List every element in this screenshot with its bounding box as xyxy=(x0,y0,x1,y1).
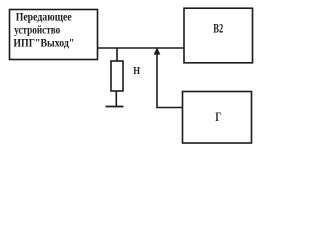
svg-text:Г: Г xyxy=(215,110,221,124)
block B2 (В2 voltmeter) xyxy=(184,8,253,63)
svg-text:Н: Н xyxy=(133,65,140,77)
svg-text:ИПГ"Выход": ИПГ"Выход" xyxy=(13,36,74,50)
wire: vertical from G connector up to main wire (with arrow) xyxy=(156,50,158,108)
load H (Н) rectangle xyxy=(111,61,123,91)
wire: main horizontal from transmitter to B2 xyxy=(98,47,185,49)
wire: resistor bottom lead xyxy=(115,91,117,107)
svg-text:Передающее: Передающее xyxy=(16,11,72,23)
ground bar xyxy=(106,106,124,108)
svg-text:В2: В2 xyxy=(213,21,223,35)
block G (Г generator) xyxy=(183,92,252,144)
wire: horizontal connector to G box xyxy=(156,107,182,109)
arrowhead at junction xyxy=(154,47,161,54)
wire: resistor top lead xyxy=(116,48,118,62)
block: transmitting device (Передающее устройство ИПГ"Выход") xyxy=(10,10,98,60)
